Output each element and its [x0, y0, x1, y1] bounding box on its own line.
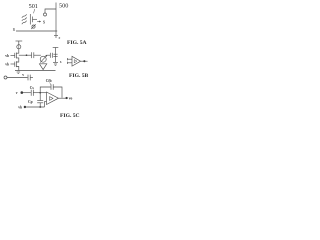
- VDD tee (left branch): [16, 40, 23, 42]
- tee element: [53, 47, 59, 49]
- terminal circle on bottom rail: [32, 25, 35, 28]
- stem: [18, 49, 20, 53]
- output wire mid node: [19, 54, 32, 56]
- wire port up to rail: [45, 9, 56, 13]
- right rail: [55, 3, 57, 36]
- svg-text:S: S: [43, 20, 45, 24]
- terminal circle (top port): [44, 13, 47, 16]
- varactor circle with diagonal arrow: [40, 56, 46, 62]
- cap to tee: [49, 53, 51, 58]
- svg-text:501: 501: [29, 3, 38, 10]
- transducer electrode bars: [29, 14, 31, 25]
- svg-text:vb: vb: [5, 63, 9, 67]
- svg-text:FIG. 5A: FIG. 5A: [67, 40, 87, 46]
- svg-text:c: c: [59, 36, 61, 40]
- feedback branch with cap Cfb: [40, 87, 51, 93]
- output node Vo: [59, 97, 66, 99]
- svg-text:vo: vo: [69, 97, 73, 101]
- buffer triangle (5B): [72, 56, 81, 66]
- resonator hatching (acoustic waves): [22, 14, 27, 18]
- svg-text:500: 500: [59, 2, 68, 9]
- svg-text:FIG. 5B: FIG. 5B: [69, 73, 89, 79]
- svg-text:FIG. 5C: FIG. 5C: [60, 113, 80, 119]
- transistor M1: [11, 55, 15, 57]
- svg-text:Cs: Cs: [30, 86, 35, 90]
- shunt cap Cp branch: [39, 93, 41, 101]
- svg-text:Cp: Cp: [28, 100, 33, 104]
- svg-text:s: s: [60, 60, 62, 64]
- svg-text:vb: vb: [5, 54, 9, 58]
- transistor M2: [11, 63, 15, 65]
- series cap Cs: [30, 90, 32, 96]
- op-amp triangle: [47, 92, 59, 105]
- svg-text:R: R: [13, 28, 16, 32]
- svg-text:v: v: [22, 73, 24, 77]
- input row 0 (upper small): [4, 76, 7, 79]
- arrow S (source): [37, 21, 40, 23]
- svg-text:Cfb: Cfb: [46, 79, 52, 83]
- series cap: [31, 52, 33, 58]
- ground rail (5B): [15, 70, 56, 72]
- svg-text:v: v: [16, 91, 18, 95]
- current source circle: [17, 45, 21, 49]
- ground (fig5A): [54, 35, 58, 37]
- svg-text:vb: vb: [18, 106, 22, 110]
- bottom rail: [16, 30, 57, 32]
- wire electrode to node: [33, 18, 38, 20]
